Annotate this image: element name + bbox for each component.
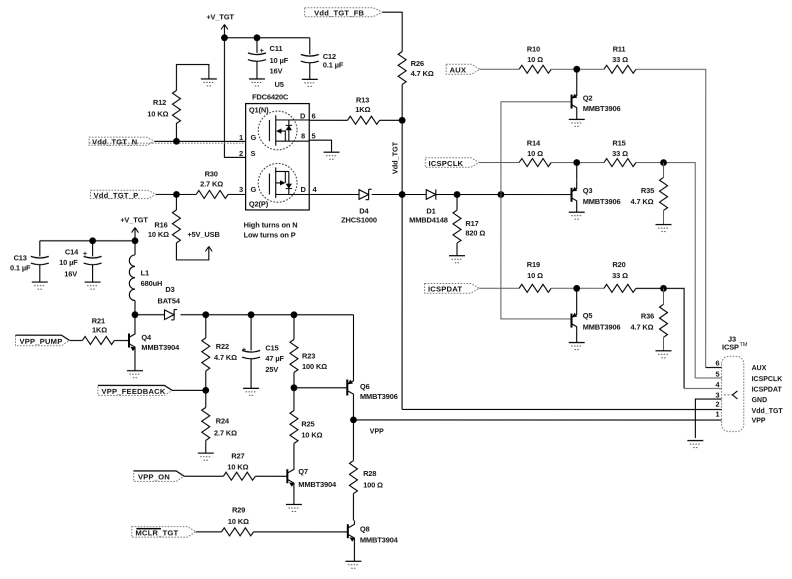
inductor L1 xyxy=(129,241,162,315)
svg-text:ICSPCLK: ICSPCLK xyxy=(429,159,464,168)
resistor R35 xyxy=(631,163,668,225)
power symbol +V_TGT (left) xyxy=(120,216,148,241)
svg-text:+V_TGT: +V_TGT xyxy=(120,216,148,225)
net flag VPP_FEEDBACK xyxy=(98,385,173,395)
junction R23/R25/Q6 base xyxy=(291,384,298,391)
svg-text:R20: R20 xyxy=(612,260,625,269)
svg-text:10 Ω: 10 Ω xyxy=(527,149,543,158)
svg-text:MMBT3906: MMBT3906 xyxy=(583,197,621,206)
svg-text:ICSPDAT: ICSPDAT xyxy=(428,285,462,294)
svg-text:D1: D1 xyxy=(426,206,435,215)
diode D1 MMBD4148 xyxy=(409,189,448,224)
svg-text:47 µF: 47 µF xyxy=(265,354,284,363)
svg-text:D: D xyxy=(301,185,307,194)
junction D4/Vdd_TGT xyxy=(399,191,406,198)
mosfet Q1(N) xyxy=(258,111,309,150)
ground under R36 xyxy=(655,351,671,358)
ground under R24 xyxy=(198,453,214,460)
wire C12 stubs xyxy=(309,38,311,80)
capacitor C13 xyxy=(10,241,49,282)
ground under R35 xyxy=(656,225,672,232)
wire ICSPDAT to R19 xyxy=(479,287,519,289)
wire VPP_PUMP to R21 xyxy=(70,339,83,341)
svg-text:D: D xyxy=(300,111,306,120)
svg-text:L1: L1 xyxy=(141,268,149,277)
junction R20/R36 xyxy=(660,285,667,292)
resistor R26 xyxy=(398,52,434,121)
resistor R16 xyxy=(148,194,209,260)
resistor R27 xyxy=(223,451,255,480)
svg-text:C14: C14 xyxy=(65,247,79,256)
svg-text:R36: R36 xyxy=(641,311,654,320)
svg-text:Vdd_TGT: Vdd_TGT xyxy=(391,141,400,174)
svg-text:R19: R19 xyxy=(527,260,540,269)
resistor R29 xyxy=(222,505,254,536)
junction D1/R17 xyxy=(454,191,461,198)
transistor Q7 MMBT3904 xyxy=(287,466,337,505)
svg-text:VPP: VPP xyxy=(370,428,384,435)
svg-text:680uH: 680uH xyxy=(141,279,163,288)
svg-text:VPP: VPP xyxy=(752,418,766,425)
wire Q6 collector to VPP node xyxy=(352,398,354,419)
svg-text:C13: C13 xyxy=(14,253,27,262)
resistor R30 xyxy=(196,169,228,198)
svg-text:Q2(P): Q2(P) xyxy=(249,199,269,208)
wire J3 pin6 stub xyxy=(706,367,722,369)
wire R11 to J3 pin6 xyxy=(636,69,706,367)
wire MCLR_TGT to R29 xyxy=(196,531,222,533)
wire R30 to U5 pin3 G xyxy=(228,193,246,195)
junction L1/Q4 xyxy=(132,311,139,318)
junction C14 top xyxy=(89,237,96,244)
resistor R17 xyxy=(453,195,485,256)
svg-text:4.7 KΩ: 4.7 KΩ xyxy=(214,353,237,362)
svg-text:R23: R23 xyxy=(302,351,315,360)
svg-text:C15: C15 xyxy=(265,343,278,352)
wire R20 to J3 pin4 xyxy=(636,288,684,388)
ground at R12 top xyxy=(201,79,217,86)
svg-text:820 Ω: 820 Ω xyxy=(465,229,485,238)
net VPP wire to J3 pin1 xyxy=(353,419,721,421)
net flag ICSPDAT xyxy=(425,284,480,294)
svg-text:+V_TGT: +V_TGT xyxy=(206,12,234,21)
U5 package box FDC6420C xyxy=(246,80,310,210)
junction rail/R22 xyxy=(202,311,209,318)
net flag Vdd_TGT_N xyxy=(89,137,155,146)
wire Vdd_TGT_FB to R26 xyxy=(382,12,402,51)
wire Vdd_TGT_N to U5 pin1 G xyxy=(155,140,246,142)
svg-text:R21: R21 xyxy=(92,316,105,325)
svg-text:8: 8 xyxy=(301,131,305,140)
resistor R20 xyxy=(604,260,636,292)
svg-text:Q4: Q4 xyxy=(141,333,152,342)
junction rail/C15 xyxy=(248,311,255,318)
junction R13/R26/Vdd_TGT xyxy=(399,117,406,124)
power symbol +5V_USB xyxy=(187,230,219,252)
junction base-net vertical crossing xyxy=(498,191,505,198)
connector J3 ICSP xyxy=(722,334,748,431)
resistor R23 xyxy=(290,315,327,388)
wire R21 to Q4 base xyxy=(114,340,129,342)
net flag MCLR_TGT xyxy=(132,527,196,538)
wire J3 pin5 stub xyxy=(695,377,721,379)
svg-text:4.7 KΩ: 4.7 KΩ xyxy=(630,322,653,331)
wire D1 to Q3 base xyxy=(436,194,572,196)
resistor R22 xyxy=(202,315,237,391)
resistor R10 xyxy=(519,45,551,74)
ground under C11 xyxy=(249,79,265,86)
svg-text:D4: D4 xyxy=(359,206,369,215)
junction R15/R35 xyxy=(660,159,667,166)
transistor Q6 MMBT3906 xyxy=(347,372,398,401)
wire Vdd_TGT to J3 pin2 xyxy=(402,408,721,410)
svg-text:VPP_FEEDBACK: VPP_FEEDBACK xyxy=(101,387,165,396)
svg-text:33 Ω: 33 Ω xyxy=(612,149,628,158)
wire R27 to Q7 base xyxy=(255,475,287,477)
wire AUX to R10 xyxy=(480,68,519,70)
resistor R11 xyxy=(604,45,636,74)
svg-text:S: S xyxy=(251,149,256,158)
svg-text:R14: R14 xyxy=(527,138,541,147)
net flag AUX xyxy=(446,64,480,74)
svg-text:3: 3 xyxy=(239,185,243,194)
wire Vdd_TGT_P to R30 xyxy=(156,193,196,195)
wire R14 to R15 xyxy=(551,162,604,164)
svg-text:ZHCS1000: ZHCS1000 xyxy=(341,216,377,225)
ground under Q3 xyxy=(569,212,585,219)
svg-text:ICSPCLK: ICSPCLK xyxy=(752,376,783,383)
junction VPP node xyxy=(350,416,357,423)
transistor Q4 MMBT3904 xyxy=(129,315,180,371)
ground under Q8 xyxy=(345,561,361,568)
svg-text:ICSPDAT: ICSPDAT xyxy=(752,387,783,394)
svg-text:TM: TM xyxy=(739,342,747,348)
svg-text:Low turns on P: Low turns on P xyxy=(244,231,296,240)
wire R13 to Vdd_TGT node xyxy=(380,119,403,121)
svg-text:MMBT3904: MMBT3904 xyxy=(141,343,180,352)
svg-text:100 KΩ: 100 KΩ xyxy=(302,362,327,371)
svg-text:ICSP: ICSP xyxy=(722,343,739,352)
wire R15 to J3 pin5 xyxy=(636,163,695,378)
svg-text:10 KΩ: 10 KΩ xyxy=(147,109,168,118)
net flag ICSPCLK xyxy=(425,158,479,168)
junction AUX/Q2 xyxy=(573,66,580,73)
net flag Vdd_TGT_FB xyxy=(305,8,383,18)
svg-text:100 Ω: 100 Ω xyxy=(363,481,383,490)
junction at +V_TGT node xyxy=(221,34,228,41)
svg-text:GND: GND xyxy=(752,397,768,404)
svg-text:R22: R22 xyxy=(216,342,229,351)
wire U5 pin5 to ground xyxy=(309,140,331,152)
junction ICSPDAT/Q5 xyxy=(573,285,580,292)
svg-text:16V: 16V xyxy=(270,66,283,75)
wire R29 to Q8 base xyxy=(254,531,348,533)
resistor R19 xyxy=(519,260,551,292)
svg-text:Q5: Q5 xyxy=(583,311,593,320)
transistor Q5 MMBT3906 xyxy=(571,288,620,342)
junction rail/R23 xyxy=(291,311,298,318)
junction R16/Vdd_TGT_P xyxy=(173,191,180,198)
J3 pin select chevron xyxy=(724,394,733,396)
junction at C11 top xyxy=(254,34,261,41)
svg-text:Q2: Q2 xyxy=(583,94,593,103)
capacitor C11 xyxy=(248,53,266,61)
ground at J3 pin3 xyxy=(687,441,703,448)
wire J3 pin4 stub xyxy=(684,388,722,390)
svg-text:R11: R11 xyxy=(613,45,626,54)
svg-text:10 Ω: 10 Ω xyxy=(527,55,543,64)
svg-text:16V: 16V xyxy=(64,270,77,279)
svg-text:Q3: Q3 xyxy=(583,186,593,195)
svg-text:10 KΩ: 10 KΩ xyxy=(228,517,249,526)
capacitor C12 xyxy=(301,54,319,62)
svg-text:6: 6 xyxy=(312,111,316,120)
resistor R28 xyxy=(349,420,383,521)
svg-text:10 µF: 10 µF xyxy=(59,258,78,267)
wire J3 pin3 to ground xyxy=(695,399,721,438)
wire VPP_ON to R27 xyxy=(184,475,223,477)
resistor R13 xyxy=(348,95,380,124)
svg-text:MMBT3906: MMBT3906 xyxy=(583,104,621,113)
junction R12/Vdd_TGT_N xyxy=(173,138,180,145)
svg-text:MCLR_TGT: MCLR_TGT xyxy=(135,528,178,537)
resistor R25 xyxy=(290,388,323,466)
mosfet Q2(P) xyxy=(249,163,309,208)
svg-text:Q6: Q6 xyxy=(360,382,370,391)
ground under Q4 xyxy=(127,371,143,378)
transistor Q8 MMBT3904 xyxy=(348,520,399,561)
svg-text:G: G xyxy=(251,133,257,142)
svg-text:R17: R17 xyxy=(465,219,478,228)
svg-text:R29: R29 xyxy=(232,505,245,514)
svg-text:10 µF: 10 µF xyxy=(270,56,289,65)
svg-text:33 Ω: 33 Ω xyxy=(612,271,628,280)
svg-text:Vdd_TGT_P: Vdd_TGT_P xyxy=(94,191,139,200)
wire +V_TGT rail to C11/C12 xyxy=(224,37,309,39)
svg-text:+5V_USB: +5V_USB xyxy=(187,230,219,239)
wire D4 to Vdd_TGT node xyxy=(372,193,427,195)
svg-text:AUX: AUX xyxy=(450,66,467,75)
svg-text:2: 2 xyxy=(715,400,719,409)
svg-text:2.7 KΩ: 2.7 KΩ xyxy=(200,180,223,189)
svg-text:VPP_PUMP: VPP_PUMP xyxy=(19,337,62,346)
svg-text:R25: R25 xyxy=(301,419,314,428)
svg-text:4.7 KΩ: 4.7 KΩ xyxy=(411,69,434,78)
svg-text:2: 2 xyxy=(239,149,243,158)
svg-text:C11: C11 xyxy=(270,44,283,53)
svg-text:Vdd_TGT: Vdd_TGT xyxy=(752,408,784,415)
svg-text:BAT54: BAT54 xyxy=(158,296,181,305)
svg-text:2.7 KΩ: 2.7 KΩ xyxy=(214,429,237,438)
svg-text:R24: R24 xyxy=(216,416,230,425)
svg-text:R12: R12 xyxy=(153,98,166,107)
ground under R17 xyxy=(449,256,465,263)
svg-text:R35: R35 xyxy=(641,186,654,195)
svg-text:5: 5 xyxy=(312,131,316,140)
svg-text:MMBT3904: MMBT3904 xyxy=(360,535,399,544)
svg-text:MMBT3904: MMBT3904 xyxy=(298,480,337,489)
svg-text:G: G xyxy=(251,185,257,194)
main pump rail wire xyxy=(135,314,354,316)
junction +V_TGT/L1 xyxy=(132,237,139,244)
power symbol +V_TGT (top) xyxy=(206,12,234,37)
ground under C14 xyxy=(85,282,101,289)
svg-text:1: 1 xyxy=(715,410,719,419)
resistor R14 xyxy=(519,138,551,166)
svg-text:33 Ω: 33 Ω xyxy=(612,55,628,64)
svg-text:MMBT3906: MMBT3906 xyxy=(583,322,621,331)
diode D4 ZHCS1000 xyxy=(341,189,377,224)
svg-text:10 KΩ: 10 KΩ xyxy=(227,462,248,471)
junction ICSPCLK/Q3 xyxy=(573,159,580,166)
svg-text:High turns on N: High turns on N xyxy=(244,220,298,229)
svg-text:FDC6420C: FDC6420C xyxy=(252,92,289,101)
svg-text:R28: R28 xyxy=(363,469,376,478)
wire ICSPCLK to R14 xyxy=(479,162,519,164)
wire C11 stubs xyxy=(256,38,258,79)
wire Q2 base net vertical xyxy=(501,102,572,319)
svg-text:U5: U5 xyxy=(275,80,284,89)
svg-text:10 KΩ: 10 KΩ xyxy=(148,230,169,239)
resistor R36 xyxy=(630,288,667,350)
transistor Q2 MMBT3906 xyxy=(572,69,621,119)
ground at U5 pin5 xyxy=(324,152,340,159)
diode D3 BAT54 xyxy=(158,285,181,320)
svg-text:R30: R30 xyxy=(205,169,218,178)
wire Q6 base xyxy=(294,387,347,389)
svg-text:Q7: Q7 xyxy=(298,467,308,476)
svg-text:R13: R13 xyxy=(356,95,369,104)
svg-text:D3: D3 xyxy=(165,285,174,294)
svg-text:6: 6 xyxy=(715,359,719,368)
svg-text:R27: R27 xyxy=(231,451,244,460)
svg-text:1: 1 xyxy=(239,133,243,142)
svg-text:R16: R16 xyxy=(154,220,167,229)
wire +V_TGT down to U5 pin2 S xyxy=(224,38,245,158)
wire U5 pin4 to D4 xyxy=(309,193,359,195)
wire rail to Q6 emitter xyxy=(352,315,354,373)
resistor R12 xyxy=(147,65,209,142)
svg-text:Q8: Q8 xyxy=(360,524,370,533)
svg-text:VPP_ON: VPP_ON xyxy=(138,473,170,482)
svg-text:R10: R10 xyxy=(527,45,540,54)
ground under C12 xyxy=(302,79,318,86)
ground under Q5 xyxy=(569,343,585,350)
svg-text:R26: R26 xyxy=(411,59,424,68)
svg-text:4.7 KΩ: 4.7 KΩ xyxy=(631,197,654,206)
net flag VPP_PUMP xyxy=(15,335,69,346)
resistor R15 xyxy=(604,138,636,166)
wire R19 to R20 xyxy=(551,287,604,289)
svg-text:1KΩ: 1KΩ xyxy=(355,105,370,114)
wire VPP_FEEDBACK to R22/R24 xyxy=(172,389,205,391)
wire U5 pin6 to R13 xyxy=(309,119,347,121)
resistor R24 xyxy=(202,390,237,453)
svg-text:10 Ω: 10 Ω xyxy=(527,271,543,280)
net flag Vdd_TGT_P xyxy=(91,190,157,199)
svg-text:5: 5 xyxy=(715,369,719,378)
net Vdd_TGT vertical xyxy=(401,120,403,409)
capacitor C14 xyxy=(59,241,101,282)
svg-text:3: 3 xyxy=(715,390,719,399)
svg-text:AUX: AUX xyxy=(752,365,767,372)
junction VPP_FEEDBACK xyxy=(202,387,209,394)
resistor R21 xyxy=(82,316,114,344)
transistor Q3 MMBT3906 xyxy=(572,163,621,213)
svg-text:25V: 25V xyxy=(265,365,278,374)
svg-text:Vdd_TGT_N: Vdd_TGT_N xyxy=(92,137,137,146)
ground under Q7 xyxy=(286,504,302,511)
ground under C15 xyxy=(243,388,259,395)
svg-text:10 KΩ: 10 KΩ xyxy=(301,430,322,439)
svg-text:R15: R15 xyxy=(612,138,625,147)
svg-text:0.1 µF: 0.1 µF xyxy=(10,263,31,272)
capacitor C15 xyxy=(242,315,285,389)
svg-text:Vdd_TGT_FB: Vdd_TGT_FB xyxy=(314,8,364,17)
svg-text:0.1 µF: 0.1 µF xyxy=(323,60,344,69)
svg-text:MMBD4148: MMBD4148 xyxy=(409,216,448,225)
svg-text:Q1(N): Q1(N) xyxy=(249,105,269,114)
svg-text:1KΩ: 1KΩ xyxy=(92,325,107,334)
wire R10 to R11 xyxy=(551,68,604,70)
svg-text:MMBT3906: MMBT3906 xyxy=(360,392,398,401)
wire C13/C14/+V_TGT rail xyxy=(40,240,135,242)
net flag VPP_ON xyxy=(134,471,185,482)
ground under C13 xyxy=(32,282,48,289)
ground under Q2 xyxy=(569,119,585,126)
